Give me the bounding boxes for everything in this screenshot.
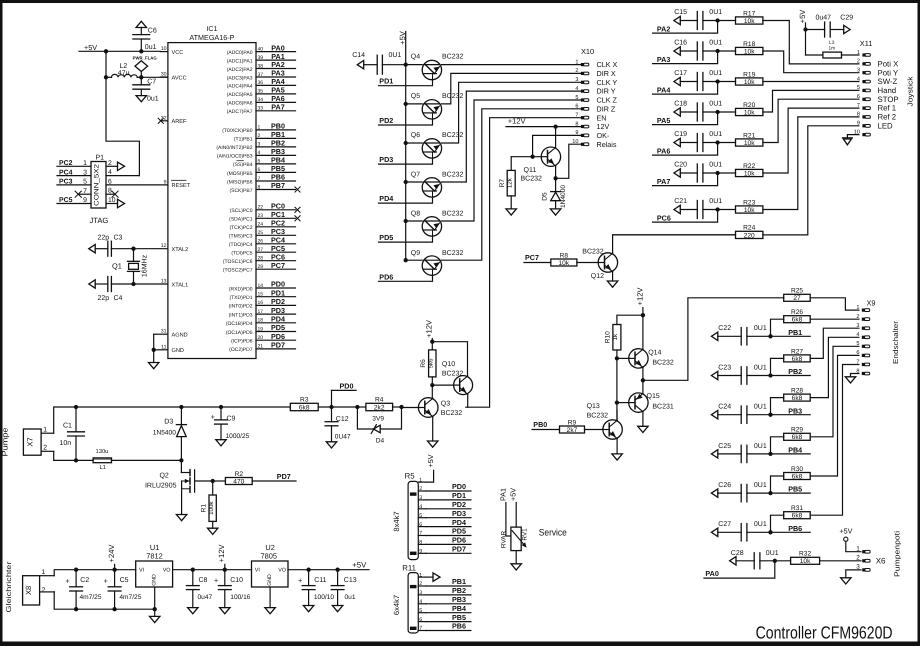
svg-text:C25: C25 <box>718 443 731 450</box>
svg-text:8x4k7: 8x4k7 <box>392 511 401 531</box>
svg-text:1000/25: 1000/25 <box>226 433 250 440</box>
svg-text:PWR_FLAG: PWR_FLAG <box>133 55 158 60</box>
svg-text:0U1: 0U1 <box>709 70 722 77</box>
svg-text:Ref 2: Ref 2 <box>878 113 897 122</box>
svg-text:C28: C28 <box>731 550 744 557</box>
svg-text:0U1: 0U1 <box>754 364 767 371</box>
svg-text:PB4: PB4 <box>452 604 466 613</box>
svg-text:6: 6 <box>108 178 112 185</box>
svg-text:R9: R9 <box>568 419 577 426</box>
svg-text:220: 220 <box>744 232 755 239</box>
inductor L2 <box>106 63 141 78</box>
svg-text:R30: R30 <box>791 466 803 473</box>
svg-text:PD1: PD1 <box>452 491 466 500</box>
svg-text:Q8: Q8 <box>411 211 420 218</box>
JTAG pin 5 net PC3 <box>57 179 91 186</box>
svg-text:(TOSC1)PC6: (TOSC1)PC6 <box>223 259 253 265</box>
svg-text:Pumpenpoti: Pumpenpoti <box>893 531 902 577</box>
resistor R7 12k <box>499 157 515 209</box>
svg-text:VCC: VCC <box>172 50 184 56</box>
junction base Q5 <box>404 102 408 106</box>
capacitor C21 <box>674 198 736 218</box>
label Joystick <box>906 76 915 106</box>
svg-text:2: 2 <box>419 581 422 587</box>
svg-text:4: 4 <box>575 86 578 92</box>
svg-text:3: 3 <box>258 142 261 148</box>
svg-text:(ADC5)PA5: (ADC5)PA5 <box>227 92 253 98</box>
svg-text:(AIN0/INT2)PB2: (AIN0/INT2)PB2 <box>216 145 252 151</box>
node PD3 <box>379 155 393 164</box>
svg-text:38: 38 <box>258 63 264 69</box>
IC1 pin 34 PA6 <box>227 94 296 107</box>
svg-text:6: 6 <box>575 104 578 110</box>
svg-text:X11: X11 <box>860 39 873 48</box>
junction PB2 <box>768 373 772 377</box>
node PB2 (R11 pin 3) <box>426 586 471 595</box>
svg-text:Pumpe: Pumpe <box>1 428 10 457</box>
svg-text:R26: R26 <box>791 309 803 316</box>
wire R4 to Q3 base <box>402 407 419 409</box>
node PA1 (service) <box>498 488 511 536</box>
junction +12V R10 <box>641 313 645 317</box>
svg-text:RESET: RESET <box>172 183 191 189</box>
svg-text:PD0: PD0 <box>340 381 354 390</box>
resistor R30 6k8 <box>771 466 811 493</box>
resistor R2 470 <box>213 471 253 486</box>
ground Q3 <box>428 441 438 447</box>
svg-text:Q10: Q10 <box>442 361 455 368</box>
wire R5 pin1 to +5V <box>426 454 435 482</box>
svg-text:10n: 10n <box>60 440 72 447</box>
node PB2 <box>788 367 802 376</box>
svg-text:X6: X6 <box>876 557 886 566</box>
svg-text:(ADC6)PA6: (ADC6)PA6 <box>227 101 253 107</box>
svg-text:Q12: Q12 <box>591 273 604 280</box>
node PD0 (R5 pin 2) <box>426 482 471 491</box>
resistor R9 2k7 <box>560 419 585 434</box>
svg-text:Poti Y: Poti Y <box>878 68 899 77</box>
wire Q9 emitter <box>379 275 433 281</box>
svg-text:PD7: PD7 <box>271 341 285 350</box>
svg-text:1k: 1k <box>612 333 619 340</box>
ground X11 <box>842 138 852 145</box>
svg-text:22p: 22p <box>98 295 110 302</box>
node PD3 (R5 pin 5) <box>426 509 471 518</box>
wire R19 to X11 pin 4 <box>763 81 859 83</box>
X9 pin 8 <box>856 368 869 375</box>
svg-text:+5V: +5V <box>839 527 852 536</box>
svg-text:37: 37 <box>258 72 264 78</box>
svg-text:PC6: PC6 <box>657 213 671 222</box>
resistor R23 10k <box>736 199 763 214</box>
svg-text:0U1: 0U1 <box>754 443 767 450</box>
svg-text:PD0: PD0 <box>271 280 285 289</box>
node PB3 <box>788 406 802 415</box>
junction +5V/JTAG branch <box>104 49 108 53</box>
wire AVCC <box>141 76 168 78</box>
svg-text:PD4: PD4 <box>271 315 285 324</box>
svg-text:6k8: 6k8 <box>792 395 803 402</box>
wire R9 to Q13 <box>585 429 603 431</box>
svg-text:PD4: PD4 <box>379 194 393 203</box>
capacitor C13 0u1 <box>331 570 357 606</box>
transistor Q10 BC232 <box>442 361 473 394</box>
svg-text:PB6: PB6 <box>788 524 802 533</box>
junction base Q6 <box>404 141 408 145</box>
IC1 pin 2 PB1 <box>234 130 296 143</box>
svg-text:100k: 100k <box>208 501 215 515</box>
svg-text:+12V: +12V <box>635 287 644 306</box>
svg-text:100/16: 100/16 <box>230 594 251 601</box>
svg-text:C17: C17 <box>674 70 687 77</box>
capacitor C12 0U47 <box>325 407 351 442</box>
svg-text:GND: GND <box>267 574 273 586</box>
junction PB1 <box>768 334 772 338</box>
svg-text:L2: L2 <box>120 63 128 70</box>
svg-text:Q4: Q4 <box>411 54 420 61</box>
IC U1 7812 <box>136 543 173 609</box>
svg-text:CLK Z: CLK Z <box>597 96 618 105</box>
svg-text:16: 16 <box>258 300 264 306</box>
svg-text:BC232: BC232 <box>442 211 464 218</box>
svg-text:+: + <box>298 576 303 585</box>
node PB5 (R11 pin 6) <box>426 613 471 622</box>
wire Q3 emitter <box>432 417 434 441</box>
junction C2 bottom <box>74 607 78 611</box>
X9 pin 1 <box>856 305 869 312</box>
capacitor C18 <box>674 101 736 121</box>
IC1 pin 29 PC7 <box>223 261 296 274</box>
ground R1 <box>208 528 218 534</box>
svg-text:PB2: PB2 <box>452 586 466 595</box>
IC1 pin 18 PD4 <box>226 315 296 328</box>
svg-text:8: 8 <box>258 184 261 190</box>
svg-text:BC232: BC232 <box>521 176 543 183</box>
svg-text:(OC2)PD7: (OC2)PD7 <box>229 347 253 353</box>
svg-text:25: 25 <box>258 230 264 236</box>
svg-text:9: 9 <box>83 197 87 204</box>
svg-text:39: 39 <box>258 55 264 61</box>
transistor Q5 BC232 <box>411 93 464 119</box>
node PD1 <box>379 77 393 86</box>
svg-text:STOP: STOP <box>878 95 899 104</box>
wire R22 to X11 pin 7 <box>763 108 859 173</box>
ground X9 <box>845 377 855 383</box>
X10 pin 2 DIR X <box>575 68 616 78</box>
wire Q10 base <box>432 384 453 386</box>
svg-text:D3: D3 <box>164 419 173 426</box>
power +12V (psu) <box>217 544 226 570</box>
junction PA3 node <box>715 49 719 53</box>
svg-text:C27: C27 <box>718 521 731 528</box>
svg-text:C2: C2 <box>80 577 89 584</box>
svg-text:PB5: PB5 <box>788 485 802 494</box>
svg-text:(INT1)PD3: (INT1)PD3 <box>229 312 253 318</box>
ground C9 <box>216 440 226 446</box>
svg-text:6k8: 6k8 <box>792 513 803 520</box>
wire R6 to node <box>431 377 433 385</box>
svg-text:R2: R2 <box>235 471 244 478</box>
svg-text:Q7: Q7 <box>411 171 420 178</box>
capacitor C16 <box>674 40 736 60</box>
svg-text:0U1: 0U1 <box>766 550 779 557</box>
svg-text:R8: R8 <box>560 252 569 259</box>
X11 pin 9 LED <box>857 121 893 131</box>
wire R31 to X9 pin 7 <box>810 365 859 516</box>
svg-text:R4: R4 <box>375 397 384 404</box>
X10 pin 3 CLK Y <box>575 77 617 87</box>
svg-text:XTAL2: XTAL2 <box>172 247 189 253</box>
wire U1 out <box>173 569 252 571</box>
svg-text:Ref 1: Ref 1 <box>878 104 897 113</box>
svg-text:18: 18 <box>258 318 264 324</box>
svg-text:PD6: PD6 <box>379 272 393 281</box>
svg-text:7: 7 <box>419 626 422 632</box>
IC1 pin 15 PD1 <box>229 288 295 301</box>
svg-text:JTAG: JTAG <box>90 216 109 225</box>
IC1 pin 3 PB2 <box>216 139 295 152</box>
svg-text:PB2: PB2 <box>788 367 802 376</box>
svg-text:10k: 10k <box>744 48 755 55</box>
junction C11 top <box>306 568 310 572</box>
wire R8 to Q12 <box>577 262 598 264</box>
capacitor C3 <box>89 234 134 256</box>
node PB3 (R11 pin 4) <box>426 595 471 604</box>
wire R27 to X9 pin 3 <box>810 328 859 358</box>
svg-text:VI: VI <box>255 568 260 574</box>
svg-text:7: 7 <box>419 531 422 537</box>
svg-text:CLK Y: CLK Y <box>597 78 618 87</box>
svg-text:(ADC3)PA3: (ADC3)PA3 <box>227 75 253 81</box>
wire X7 pin2 to pump return <box>54 451 93 460</box>
junction PA0/R32 <box>773 559 777 563</box>
capacitor C15 <box>674 9 736 29</box>
X9 pin 7 <box>856 359 869 366</box>
svg-text:0U1: 0U1 <box>709 198 722 205</box>
power +5V (driver rail) <box>398 30 407 64</box>
IC1 pin 26 PC4 <box>229 236 296 249</box>
svg-text:GND: GND <box>172 348 184 354</box>
X9 pin 6 <box>856 350 869 357</box>
svg-text:PC7: PC7 <box>525 253 539 262</box>
resistor R18 10k <box>736 41 763 56</box>
svg-text:+: + <box>214 576 219 585</box>
svg-text:Q3: Q3 <box>441 400 450 407</box>
resistor R4 2k2 <box>366 397 393 412</box>
node PC7 <box>524 253 551 263</box>
svg-text:PA2: PA2 <box>657 24 670 33</box>
junction base Q8 <box>404 219 408 223</box>
svg-text:4: 4 <box>857 76 860 82</box>
junction PB5 <box>768 491 772 495</box>
diode D4 3V9 (zener) <box>357 407 401 444</box>
svg-text:0U1: 0U1 <box>754 325 767 332</box>
svg-text:4: 4 <box>258 150 261 156</box>
ground D5 <box>550 209 560 215</box>
svg-text:(MISO)PB6: (MISO)PB6 <box>227 179 253 185</box>
transistor Q13 BC232 <box>587 403 623 439</box>
svg-text:0u1: 0u1 <box>145 44 157 51</box>
svg-text:2: 2 <box>108 160 112 167</box>
svg-text:(ADC2)PA2: (ADC2)PA2 <box>227 67 253 73</box>
svg-text:R24: R24 <box>743 225 755 232</box>
junction +12V R6 <box>430 340 434 344</box>
svg-text:0u1: 0u1 <box>345 594 356 601</box>
IC U1 ATMEGA16-P (IC1) body <box>168 26 256 359</box>
X10 pin 5 CLK Z <box>575 95 617 105</box>
svg-text:PD1: PD1 <box>271 288 285 297</box>
svg-text:DIR Y: DIR Y <box>597 87 616 96</box>
resistor network R5 8x4k7 <box>392 472 426 560</box>
svg-text:PB1: PB1 <box>452 577 466 586</box>
svg-text:10k: 10k <box>558 260 569 267</box>
X11 pin 7 Ref 1 <box>857 103 896 113</box>
diode D3 1N5400 <box>153 407 187 460</box>
svg-text:+5V: +5V <box>509 488 518 501</box>
svg-text:C22: C22 <box>718 325 731 332</box>
svg-text:12V: 12V <box>597 122 610 131</box>
wire R18 to X11 pin 3 <box>763 51 859 73</box>
svg-text:0U1: 0U1 <box>709 9 722 16</box>
X11 pin 10 GND <box>854 129 871 136</box>
svg-text:(AIN1/OC0)PB3: (AIN1/OC0)PB3 <box>217 154 253 160</box>
svg-text:PB4: PB4 <box>788 446 802 455</box>
svg-text:6: 6 <box>258 167 261 173</box>
svg-text:RV1: RV1 <box>522 528 529 541</box>
node PB0 <box>532 420 560 429</box>
svg-text:1: 1 <box>43 427 47 434</box>
svg-text:20: 20 <box>258 335 264 341</box>
X9 pin 4 <box>856 332 869 339</box>
IC1 pin 28 PC6 <box>223 252 296 265</box>
X10 pin 1 CLK X <box>575 59 617 69</box>
svg-text:(T1)PB1: (T1)PB1 <box>234 137 253 143</box>
svg-text:21: 21 <box>258 344 264 350</box>
node PA7 <box>653 173 718 186</box>
JTAG pin 8 (n.c.) <box>106 188 118 198</box>
node PB4 (R11 pin 5) <box>426 604 471 613</box>
svg-text:PB3: PB3 <box>452 595 466 604</box>
svg-text:C24: C24 <box>718 404 731 411</box>
svg-text:+5V: +5V <box>84 43 97 52</box>
svg-text:PD6: PD6 <box>271 332 285 341</box>
wire R32 to X6 pin 2 <box>820 560 861 562</box>
node PA0 <box>704 561 775 578</box>
svg-text:R27: R27 <box>791 348 803 355</box>
wire base Q4 <box>406 64 423 66</box>
IC1 pin 14 PD0 <box>229 280 296 293</box>
svg-text:R7: R7 <box>499 179 506 188</box>
resistor R19 10k <box>736 71 763 86</box>
svg-text:BC232: BC232 <box>582 248 604 255</box>
IC1 pin 16 PD2 <box>229 297 296 310</box>
transistor Q12 BC232 <box>582 248 617 279</box>
IC1 pin 12 XTAL2 <box>134 243 189 253</box>
svg-text:Gleichrichter: Gleichrichter <box>5 561 13 613</box>
IC1 pin 19 PD5 <box>226 323 296 336</box>
wire Q11 base <box>511 156 541 158</box>
connector X7 <box>23 427 53 456</box>
node PA6 <box>653 143 718 156</box>
wire Q4 emitter <box>379 80 433 86</box>
ground Q13 <box>612 454 622 460</box>
junction C5 bottom <box>112 607 116 611</box>
svg-text:36: 36 <box>258 80 264 86</box>
svg-text:(TOSC2)PC7: (TOSC2)PC7 <box>223 268 253 274</box>
X11 pin 1 supply <box>857 50 870 57</box>
node PC6 <box>653 210 718 223</box>
svg-text:2: 2 <box>856 555 860 562</box>
capacitor C8 0u47 <box>186 570 212 608</box>
IC1 pin 38 PA2 <box>227 60 296 73</box>
junction Q2 drain <box>179 458 183 462</box>
power +12V (driver) <box>425 319 434 350</box>
svg-text:BC232: BC232 <box>442 132 464 139</box>
svg-text:1: 1 <box>258 125 261 131</box>
ground U1 <box>150 609 160 622</box>
svg-text:2: 2 <box>42 587 46 594</box>
capacitor C25 <box>711 443 810 463</box>
svg-text:29: 29 <box>258 264 264 270</box>
transistor Q14 BC232 <box>629 349 674 368</box>
svg-text:5: 5 <box>419 608 422 614</box>
power +24V <box>107 544 116 570</box>
svg-text:3: 3 <box>83 169 87 176</box>
wire Q5 emitter <box>379 119 433 125</box>
IC1 pin 21 PD7 <box>229 341 295 354</box>
node PB6 <box>788 524 802 533</box>
svg-text:+12V: +12V <box>217 544 226 563</box>
svg-text:1N4000: 1N4000 <box>560 185 567 208</box>
svg-text:AREF: AREF <box>172 119 188 125</box>
wire Q9 collector to X10 pin 6 <box>442 109 581 260</box>
IC1 pin 8 PB7 <box>229 181 300 194</box>
wire Q13 emitter <box>616 439 618 454</box>
IC1 pin 11 GND <box>154 344 184 354</box>
X10 pin 7 EN <box>575 113 606 123</box>
svg-text:(TMS)PC3: (TMS)PC3 <box>229 234 253 240</box>
wire base Q9 <box>406 259 423 261</box>
IC1 pin 22 PC0 <box>230 202 300 215</box>
svg-text:PD2: PD2 <box>379 116 393 125</box>
junction +5V/C6 <box>139 49 143 53</box>
wire Q12 collector to R24 <box>613 235 736 253</box>
svg-text:XTAL1: XTAL1 <box>172 282 189 288</box>
svg-text:+12V: +12V <box>425 319 434 338</box>
node PB1 <box>788 328 802 337</box>
transistor Q7 BC232 <box>411 171 464 197</box>
svg-text:Q13: Q13 <box>587 403 600 410</box>
X10 pin 10 Relais <box>572 139 617 149</box>
svg-text:22p: 22p <box>98 234 110 241</box>
svg-text:6k8: 6k8 <box>792 317 803 324</box>
svg-text:9: 9 <box>857 121 860 127</box>
svg-text:5: 5 <box>575 95 578 101</box>
svg-text:PA7: PA7 <box>657 177 670 186</box>
resistor R32 10k <box>775 551 820 566</box>
svg-text:19: 19 <box>258 326 264 332</box>
capacitor C29 0u47 <box>806 15 854 37</box>
junction PA2 node <box>715 18 719 22</box>
svg-text:PC5: PC5 <box>59 197 73 204</box>
svg-text:L1: L1 <box>100 465 106 471</box>
svg-text:R17: R17 <box>743 10 755 17</box>
svg-text:PB0: PB0 <box>533 420 547 429</box>
svg-text:1: 1 <box>857 50 860 56</box>
svg-text:VO: VO <box>163 568 171 574</box>
junction Q11 base <box>530 155 534 159</box>
connector X8 <box>23 569 55 605</box>
